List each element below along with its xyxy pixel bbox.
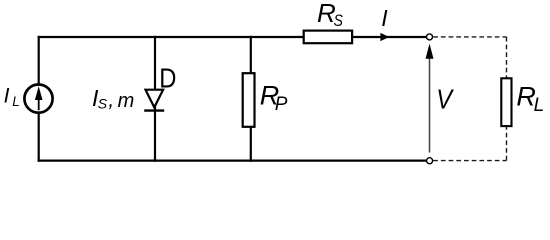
svg-text:L: L (12, 94, 20, 109)
svg-text:S: S (98, 96, 108, 112)
terminal top (427, 34, 433, 40)
wire bottom rail (38, 160, 427, 162)
svg-text:m: m (118, 90, 135, 112)
svg-text:D: D (159, 62, 176, 94)
dashed wire bottom (433, 160, 506, 162)
dashed wire top (433, 36, 506, 38)
resistor RL (501, 78, 511, 126)
svg-text:S: S (334, 12, 344, 31)
current arrow I (380, 33, 389, 41)
wire Rp branch (250, 36, 252, 162)
voltage arrow V (426, 44, 434, 153)
svg-text:I: I (381, 5, 388, 31)
svg-text:L: L (534, 95, 545, 116)
svg-text:,: , (108, 88, 114, 111)
wire top rail (38, 36, 427, 38)
label R_P (260, 80, 288, 115)
dashed wire right top (506, 37, 508, 78)
wire left branch (38, 36, 40, 162)
current source IL (24, 85, 52, 113)
resistor RS (304, 31, 352, 44)
terminal bottom (427, 158, 433, 164)
diode D (144, 90, 164, 111)
wire diode branch (154, 36, 156, 162)
label R_S (317, 0, 343, 31)
resistor RP (243, 73, 255, 127)
svg-text:P: P (275, 94, 288, 115)
label R_L (516, 82, 544, 117)
label Is,m (92, 85, 134, 112)
label I_L (4, 84, 20, 109)
svg-text:V: V (436, 83, 454, 115)
dashed wire right bottom (506, 127, 508, 161)
svg-text:I: I (4, 84, 10, 107)
